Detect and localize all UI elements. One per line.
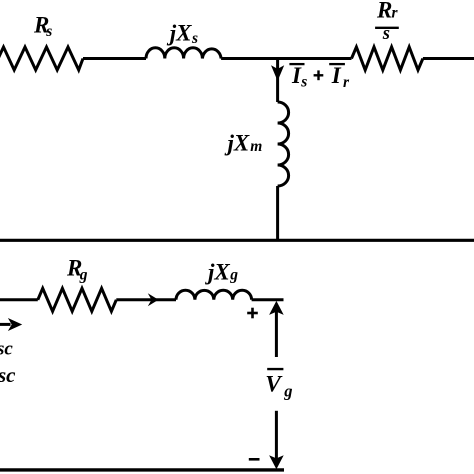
plus sign: [247, 308, 258, 319]
current direction arrowhead on wire: [148, 293, 159, 306]
label Vbar_g: [265, 369, 292, 401]
label Ibar_s + Ibar_r: [289, 63, 350, 91]
wire vertical magnetizing branch bottom: [276, 186, 279, 240]
svg-text:m: m: [250, 138, 262, 155]
wire top rail: jXs to Rr/s: [221, 57, 351, 60]
resistor R_s: [0, 47, 83, 70]
wire top rail right: [423, 57, 474, 60]
svg-text:s: s: [45, 23, 52, 40]
wire Rg to jXg: [116, 298, 176, 301]
svg-text:jX: jX: [204, 260, 230, 285]
svg-text:g: g: [229, 266, 238, 283]
inductor jX_s: [146, 48, 221, 59]
voltage arrow down (- side): [269, 411, 284, 470]
svg-text:V: V: [265, 371, 283, 397]
inductor jX_g: [176, 290, 252, 300]
wire top rail: Rs to jXs: [83, 57, 146, 60]
label jX_m: [224, 131, 263, 156]
label R_g: [66, 255, 88, 283]
svg-text:s: s: [300, 74, 307, 91]
voltage arrow up (+ side): [269, 301, 284, 357]
svg-text:g: g: [283, 382, 292, 401]
wire jXg to output node: [252, 298, 284, 301]
inductor jX_m: [278, 102, 289, 186]
wire bottom-left input: [0, 298, 38, 301]
svg-text:sc: sc: [0, 363, 16, 387]
svg-text:s: s: [382, 24, 390, 44]
svg-text:r: r: [392, 5, 399, 22]
wire bottom rail: [0, 468, 284, 471]
resistor R_r/s: [352, 47, 423, 70]
svg-text:r: r: [343, 74, 350, 91]
svg-text:s: s: [191, 30, 198, 47]
label jX_g: [204, 260, 238, 285]
label R_r over s (fraction): [375, 0, 399, 44]
svg-text:jX: jX: [224, 131, 250, 156]
svg-text:R: R: [376, 0, 392, 22]
svg-text:sc: sc: [0, 338, 13, 359]
svg-text:I: I: [331, 63, 342, 88]
svg-text:jX: jX: [166, 21, 192, 46]
resistor R_g: [38, 288, 117, 311]
arrowhead into magnetizing node: [271, 65, 284, 81]
minus sign: [249, 458, 260, 461]
label R_s: [33, 12, 52, 40]
label jX_s: [166, 21, 198, 48]
wire middle rail: [0, 239, 474, 242]
wire vertical magnetizing branch top: [276, 57, 279, 102]
svg-text:g: g: [79, 266, 88, 283]
current arrow at left edge: [0, 318, 22, 331]
